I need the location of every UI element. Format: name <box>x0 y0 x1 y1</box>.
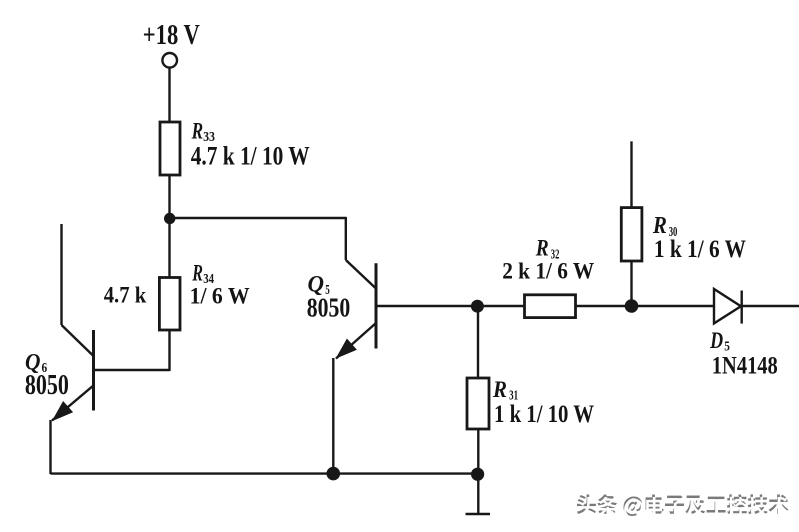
svg-text:1 k 1/ 6 W: 1 k 1/ 6 W <box>654 236 746 263</box>
svg-text:2 k 1/ 6 W: 2 k 1/ 6 W <box>502 259 594 284</box>
svg-text:8050: 8050 <box>307 293 351 323</box>
svg-text:1 k 1/ 10 W: 1 k 1/ 10 W <box>494 401 594 428</box>
svg-text:1/ 6 W: 1/ 6 W <box>190 283 250 308</box>
svg-text:8050: 8050 <box>25 370 69 401</box>
svg-text:R: R <box>492 377 507 402</box>
svg-text:+18 V: +18 V <box>143 20 200 51</box>
svg-text:4.7 k: 4.7 k <box>104 283 147 309</box>
svg-text:1N4148: 1N4148 <box>712 352 778 379</box>
svg-text:R: R <box>192 260 203 285</box>
svg-text:4.7 k 1/ 10 W: 4.7 k 1/ 10 W <box>191 142 310 171</box>
svg-text:R: R <box>535 236 549 261</box>
svg-text:D: D <box>709 328 723 353</box>
svg-text:R: R <box>191 119 203 144</box>
